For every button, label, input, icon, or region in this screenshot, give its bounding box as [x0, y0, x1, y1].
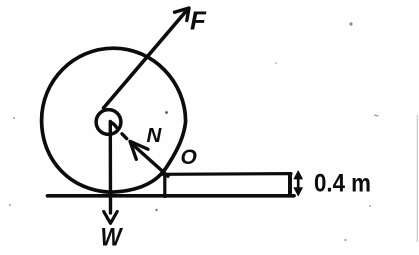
hub circle	[96, 110, 121, 135]
weight W shaft	[109, 122, 113, 214]
scan speck lower right	[344, 239, 346, 241]
force F shaft	[104, 10, 188, 109]
svg-text:O: O	[181, 146, 197, 169]
scan speck inside wheel	[165, 111, 168, 114]
scan speck faint2	[369, 205, 371, 207]
scan speck mid right	[374, 115, 379, 116]
ground line	[48, 194, 295, 198]
scan speck faint	[275, 62, 277, 64]
dash 2	[122, 134, 127, 139]
step top edge	[163, 172, 291, 176]
weight W arrowhead	[104, 212, 118, 224]
dashed segment to hub centre	[111, 123, 117, 128]
normal N arrowhead	[130, 141, 148, 159]
wheel outer circle	[42, 48, 186, 192]
faint page edge right	[416, 115, 418, 242]
step right edge	[288, 172, 292, 196]
svg-text:N: N	[147, 124, 163, 147]
dimension arrow 0.4 m	[294, 171, 303, 196]
step left edge	[163, 174, 166, 197]
normal N shaft	[132, 144, 169, 177]
scan speck left	[13, 117, 15, 119]
scan speck below ground	[155, 209, 157, 211]
scan speck top right	[349, 22, 352, 25]
scan speck lower left	[9, 204, 11, 206]
svg-text:W: W	[101, 223, 124, 251]
force F arrowhead	[175, 8, 190, 21]
svg-text:0.4 m: 0.4 m	[314, 169, 371, 197]
svg-text:F: F	[190, 6, 207, 36]
